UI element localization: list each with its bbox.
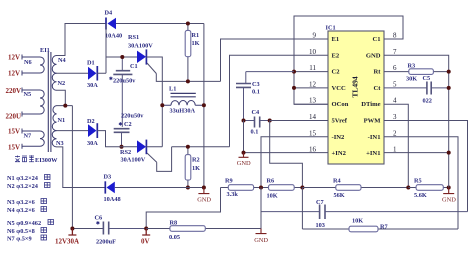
svg-text:9: 9 <box>313 32 317 40</box>
diode D2 30A <box>88 123 97 138</box>
wire R8 right up to -IN2 node <box>260 188 262 229</box>
wire D1 cathode up to +rail <box>97 57 137 73</box>
svg-text:N3: N3 <box>56 140 64 147</box>
svg-text:220U: 220U <box>6 113 22 121</box>
svg-text:4: 4 <box>393 97 397 105</box>
resistor R6 10K <box>261 185 302 191</box>
svg-text:N2 φ3.2×24: N2 φ3.2×24 <box>7 183 39 190</box>
svg-text:220u50v: 220u50v <box>113 78 136 85</box>
svg-text:C1: C1 <box>372 36 380 43</box>
wire RS2 gate tail to E2 row <box>157 147 230 172</box>
wire 5Vref drop to R6-R4 node <box>270 121 303 188</box>
wire pin15 row drop to R6 left <box>261 137 328 188</box>
wire E1 drive from pin9 <box>221 39 329 81</box>
svg-text:GND: GND <box>366 52 381 59</box>
node VCC pin12 <box>292 86 296 90</box>
wire pin7 GND vertical <box>384 55 449 187</box>
ground G3 <box>443 188 454 194</box>
svg-text:C2: C2 <box>332 69 341 76</box>
svg-text:30K: 30K <box>406 76 417 83</box>
svg-text:C1: C1 <box>130 63 138 70</box>
IC pin numbers left <box>309 32 317 154</box>
wire E2 drive from pin10 <box>230 55 329 146</box>
svg-text:OCon: OCon <box>332 101 349 108</box>
svg-text:N6: N6 <box>24 59 32 66</box>
diode D4 10A40 <box>106 18 116 30</box>
svg-text:D4: D4 <box>105 10 114 17</box>
wire GND vertical pin16 <box>244 121 329 153</box>
transformer secondary winding N2 <box>52 73 56 90</box>
svg-text:13: 13 <box>309 97 317 105</box>
svg-text:220V: 220V <box>6 87 22 95</box>
wire pin1 row <box>384 152 449 154</box>
svg-text:C5: C5 <box>423 75 431 82</box>
wire D4 anode to top rail right <box>116 23 204 25</box>
svg-text:3.3k: 3.3k <box>227 191 239 198</box>
wire D2 cathode down to RS2 row <box>97 131 137 147</box>
wire R9 left to 0V node <box>146 188 220 229</box>
resistor R9 3.3k <box>221 185 262 191</box>
svg-text:N3 φ3.2×6: N3 φ3.2×6 <box>7 199 35 206</box>
0V terminal node <box>144 227 148 231</box>
ground G2 <box>239 153 249 158</box>
capacitor C3 0.1 <box>236 72 294 121</box>
svg-text:L1: L1 <box>169 86 176 93</box>
svg-text:8: 8 <box>393 32 397 40</box>
svg-text:N4: N4 <box>58 57 67 64</box>
wire pin11 row <box>294 71 328 73</box>
svg-text:N1: N1 <box>58 117 66 124</box>
resistor R7 10K <box>302 188 458 232</box>
svg-text:EI1: EI1 <box>40 47 50 54</box>
node VCC pin11 <box>292 70 296 74</box>
svg-text:0V: 0V <box>141 238 150 246</box>
capacitor C1 220u50v <box>113 57 132 127</box>
IC pin rows right labels <box>361 36 381 157</box>
svg-text:N5 φ0.9×462: N5 φ0.9×462 <box>7 220 41 227</box>
svg-text:1K: 1K <box>192 40 200 47</box>
capacitor C5 022 <box>384 82 449 95</box>
svg-text:1K: 1K <box>192 165 200 172</box>
svg-text:30A100V: 30A100V <box>121 157 146 164</box>
svg-text:2: 2 <box>393 129 397 137</box>
diode D1 30A <box>88 66 97 81</box>
wire pin14 row <box>270 120 328 122</box>
svg-text:N5: N5 <box>24 91 32 98</box>
svg-text:+IN1: +IN1 <box>366 150 380 157</box>
rectifier RS2 30A100V <box>137 140 157 163</box>
svg-text:0.1: 0.1 <box>252 89 260 96</box>
svg-text:3: 3 <box>393 113 397 121</box>
svg-text:N7 φ.5×9: N7 φ.5×9 <box>7 236 32 243</box>
wire RS2 cathode to L1 left vertical <box>146 146 162 148</box>
node D3 row GND junction <box>202 186 206 190</box>
svg-text:+IN2: +IN2 <box>332 150 347 157</box>
svg-text:5Vref: 5Vref <box>332 118 348 125</box>
svg-text:-IN2: -IN2 <box>332 134 346 141</box>
svg-text:N1 φ3.2×24: N1 φ3.2×24 <box>7 175 39 182</box>
resistor R4 56K <box>302 185 408 191</box>
svg-text:10A40: 10A40 <box>105 33 122 40</box>
wire D3 anode to GND node <box>115 187 204 189</box>
svg-text:VCC: VCC <box>332 85 347 92</box>
wire +12V rail drop to L1 right <box>203 24 205 188</box>
svg-text:15V: 15V <box>8 128 20 136</box>
svg-text:5: 5 <box>393 80 397 88</box>
svg-text:GND: GND <box>442 196 456 203</box>
resistor R5 5.6K <box>408 185 448 191</box>
svg-text:N6 φ0.5×8: N6 φ0.5×8 <box>7 228 35 235</box>
svg-text:6: 6 <box>393 64 397 72</box>
wire pin12 row <box>294 87 328 89</box>
svg-text:15V: 15V <box>8 144 20 152</box>
capacitor C6 2200uF <box>103 222 146 235</box>
svg-text:30A: 30A <box>87 82 98 89</box>
svg-text:R5: R5 <box>414 178 422 185</box>
wire pin2 to R7 row <box>384 137 458 229</box>
rectifier RS1 30A100V <box>137 49 156 73</box>
wire pin4 drop to R4-R5 node <box>294 104 408 187</box>
svg-text:R4: R4 <box>333 178 342 185</box>
transformer EI1 primary winding N7 <box>22 129 44 149</box>
wire N4-N2 tap to D1 <box>57 72 89 74</box>
svg-text:R7: R7 <box>380 224 388 231</box>
transformer EI1 core <box>48 52 51 152</box>
wire N3 bottom to D3 row <box>57 147 106 188</box>
svg-text:D3: D3 <box>104 174 112 181</box>
winding table <box>7 175 54 243</box>
transformer secondary winding N3 <box>52 131 56 147</box>
svg-text:0.1: 0.1 <box>251 129 259 136</box>
resistor R1 1K <box>185 24 191 82</box>
wire pin8 loop to VCC vertical <box>294 16 403 104</box>
transformer EI1 primary winding N5 <box>22 88 44 117</box>
transformer secondary winding N4 <box>52 56 56 74</box>
svg-text:R1: R1 <box>192 32 200 39</box>
svg-text:R6: R6 <box>267 178 275 185</box>
svg-text:-IN1: -IN1 <box>368 134 381 141</box>
IC pin rows left labels <box>332 36 349 157</box>
svg-text:PWM: PWM <box>364 118 382 125</box>
transformer secondary winding N1 <box>52 106 56 131</box>
svg-text:N4 φ3.2×6: N4 φ3.2×6 <box>7 207 35 214</box>
svg-text:DTime: DTime <box>361 101 380 108</box>
svg-text:TL494: TL494 <box>351 76 360 98</box>
bottom rail 12V30A terminal <box>72 228 103 230</box>
resistor R3 30K <box>384 69 449 75</box>
transformer label <box>15 155 58 164</box>
svg-text:5.6K: 5.6K <box>414 192 427 199</box>
svg-text:12V: 12V <box>8 54 20 62</box>
svg-text:C2: C2 <box>124 121 132 128</box>
svg-text:10A48: 10A48 <box>104 196 121 203</box>
svg-text:12V: 12V <box>8 70 20 78</box>
svg-text:12V30A: 12V30A <box>55 238 79 246</box>
inductor L1 33uH30A <box>162 93 204 105</box>
svg-text:0.05: 0.05 <box>169 234 180 241</box>
svg-text:N2: N2 <box>58 80 66 87</box>
svg-text:56K: 56K <box>334 192 345 199</box>
svg-text:R8: R8 <box>170 220 178 227</box>
wire N2-N1 center tap to junction <box>57 90 73 105</box>
svg-text:IC1: IC1 <box>326 25 336 32</box>
svg-text:C3: C3 <box>252 81 260 88</box>
svg-text:C4: C4 <box>252 109 261 116</box>
wire pin3 to C7 row <box>384 121 468 212</box>
IC U1 TL494 body <box>328 31 384 164</box>
node pin16 GND <box>242 151 246 155</box>
svg-text:RS2: RS2 <box>120 149 131 156</box>
wire N4 top to D4 rail <box>57 24 106 56</box>
capacitor C2 220u50v <box>114 129 130 147</box>
svg-text:10: 10 <box>309 48 317 56</box>
svg-text:GND: GND <box>237 160 251 167</box>
svg-text:022: 022 <box>423 98 432 105</box>
svg-text:10K: 10K <box>352 218 363 225</box>
svg-text:GND: GND <box>197 197 211 204</box>
svg-text:33uH30A: 33uH30A <box>170 108 196 115</box>
svg-text:30A: 30A <box>87 140 98 147</box>
svg-text:220u50v: 220u50v <box>121 113 144 120</box>
wire RS1 gate tail to E1 row <box>156 74 220 82</box>
capacitor C4 0.1 <box>244 117 270 128</box>
transformer EI1 primary winding N6 <box>22 55 44 76</box>
svg-text:R3: R3 <box>408 63 416 70</box>
svg-text:10K: 10K <box>267 193 278 200</box>
wire RS1 cathode to L1 left vertical <box>146 57 162 147</box>
svg-text:11: 11 <box>309 64 316 72</box>
svg-text:GND: GND <box>254 237 268 244</box>
svg-text:R2: R2 <box>192 157 200 164</box>
svg-text:7: 7 <box>393 48 397 56</box>
svg-text:Ct: Ct <box>374 85 382 92</box>
wire N1-N3 tap to D2 <box>57 130 89 132</box>
svg-text:12: 12 <box>309 80 317 88</box>
resistor R2 1K <box>185 147 191 188</box>
svg-text:15: 15 <box>309 129 317 137</box>
svg-text:RS1: RS1 <box>128 34 139 41</box>
svg-text:2200uF: 2200uF <box>96 239 116 246</box>
node center tap <box>63 104 67 108</box>
svg-text:D1: D1 <box>87 60 95 67</box>
resistor R8 0.05 <box>146 226 261 232</box>
wire D4 cathode drop to rectified rail <box>105 24 107 74</box>
IC pin numbers right <box>393 32 397 154</box>
svg-text:103: 103 <box>316 222 325 229</box>
svg-text:E2: E2 <box>332 52 340 59</box>
ground G4 <box>256 229 267 234</box>
svg-text:30A100V: 30A100V <box>128 43 153 50</box>
ground G1 <box>198 188 209 194</box>
svg-text:Rt: Rt <box>374 69 382 76</box>
wire center tap down to 12V30A terminal <box>71 106 73 229</box>
diode D3 10A48 <box>105 181 115 193</box>
svg-text:E1: E1 <box>332 36 340 43</box>
svg-text:EI300W: EI300W <box>35 157 58 164</box>
svg-text:C7: C7 <box>316 199 324 206</box>
svg-text:D2: D2 <box>87 118 95 125</box>
capacitor C7 103 <box>261 205 468 220</box>
svg-text:N7: N7 <box>24 133 32 140</box>
svg-text:14: 14 <box>309 113 317 121</box>
svg-text:R9: R9 <box>225 178 233 185</box>
